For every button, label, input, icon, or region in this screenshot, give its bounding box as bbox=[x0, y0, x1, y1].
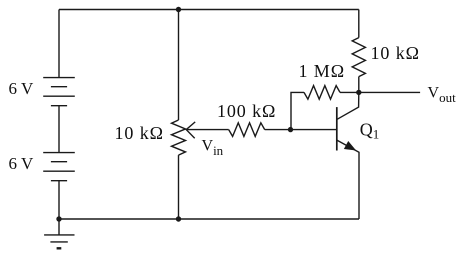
battery B1 6V bbox=[43, 78, 75, 106]
wire 1M to node B bbox=[340, 91, 359, 93]
svg-text:10 kΩ: 10 kΩ bbox=[371, 43, 420, 63]
svg-text:1 MΩ: 1 MΩ bbox=[299, 61, 345, 81]
potentiometer wiper arrow bbox=[186, 122, 229, 138]
svg-text:Vin: Vin bbox=[202, 137, 224, 158]
svg-text:10 kΩ: 10 kΩ bbox=[115, 123, 164, 143]
node B (collector node) bbox=[356, 90, 361, 95]
wire node A to base of Q1 bbox=[291, 129, 337, 131]
transistor Q1 bbox=[337, 92, 359, 219]
node bottom-left junction bbox=[56, 216, 61, 221]
wire top rail down to collector resistor bbox=[358, 10, 360, 38]
svg-text:Q1: Q1 bbox=[360, 119, 380, 141]
wire collector resistor to node B bbox=[358, 77, 360, 93]
battery B2 6V bbox=[43, 153, 75, 181]
svg-text:6 V: 6 V bbox=[9, 79, 34, 98]
potentiometer R1 10 kOhm zigzag bbox=[172, 120, 186, 155]
ground bbox=[44, 219, 74, 248]
wire battery B2 to bottom rail bbox=[58, 181, 60, 219]
svg-text:100 kΩ: 100 kΩ bbox=[217, 101, 276, 121]
wire between batteries bbox=[58, 106, 60, 153]
resistor R3 1 MOhm bbox=[304, 86, 340, 100]
svg-text:6 V: 6 V bbox=[9, 154, 34, 173]
wire left vertical (top rail to battery B1) bbox=[58, 10, 60, 78]
resistor R4 10 kOhm (collector) bbox=[352, 38, 365, 77]
wire middle vertical lower (pot to bottom rail) bbox=[178, 155, 180, 219]
wire bottom rail bbox=[59, 218, 359, 220]
wire top rail bbox=[59, 9, 359, 11]
wire node B to V_out bbox=[359, 91, 420, 93]
svg-text:Vout: Vout bbox=[428, 85, 457, 106]
wire middle vertical upper (top rail to pot) bbox=[178, 10, 180, 121]
node top junction bbox=[176, 7, 181, 12]
resistor R2 100 kOhm bbox=[229, 123, 265, 137]
wire node A up to 1M resistor bbox=[291, 92, 304, 129]
wire 100k to node A bbox=[265, 129, 291, 131]
node A (base node) bbox=[288, 127, 293, 132]
node pot-bottom junction bbox=[176, 216, 181, 221]
